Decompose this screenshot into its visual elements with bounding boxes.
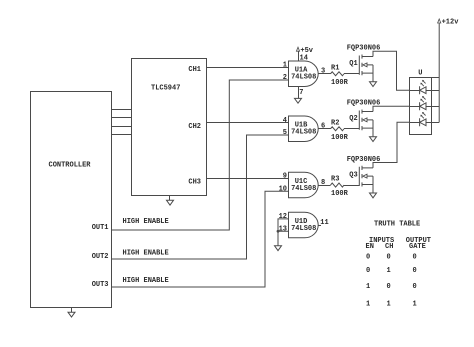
wire OUT1 to U1A pin2 — [112, 80, 289, 230]
ground (TLC5947) — [167, 200, 174, 205]
wire anode stub top — [431, 77, 439, 79]
wire +12v rail — [438, 23, 440, 122]
svg-text:14: 14 — [300, 55, 308, 63]
transistor Q1 — [359, 54, 373, 81]
wire LED2 right — [426, 106, 431, 108]
svg-text:0: 0 — [387, 254, 391, 262]
svg-text:74LS08: 74LS08 — [291, 74, 316, 82]
wire LED2 left — [409, 106, 420, 108]
svg-text:TLC5947: TLC5947 — [151, 85, 180, 93]
svg-text:5: 5 — [283, 129, 287, 137]
svg-text:0: 0 — [413, 283, 417, 291]
svg-text:CONTROLLER: CONTROLLER — [49, 162, 92, 170]
wire CH1 to U1A pin1 — [206, 67, 288, 69]
svg-text:1: 1 — [387, 267, 391, 275]
svg-text:R3: R3 — [331, 176, 339, 184]
svg-text:0: 0 — [413, 267, 417, 275]
svg-text:CH1: CH1 — [188, 66, 201, 74]
svg-text:TRUTH TABLE: TRUTH TABLE — [374, 220, 420, 228]
wire TLC5947 ground — [169, 195, 171, 200]
svg-text:12: 12 — [279, 213, 287, 221]
svg-text:11: 11 — [320, 219, 328, 227]
wire CH3 to U1C pin9 — [206, 178, 288, 180]
svg-text:1: 1 — [366, 301, 370, 309]
svg-text:100R: 100R — [331, 79, 349, 87]
svg-text:+5v: +5v — [300, 47, 313, 55]
wire U1C out to R3 — [318, 185, 330, 187]
wire CH2 to U1B pin4 — [206, 122, 288, 124]
wire bus line 1 — [112, 109, 132, 111]
LED D3 — [420, 118, 426, 126]
wire U1B out to R2 — [318, 128, 330, 130]
wire Q2 drain to LED2 — [373, 106, 409, 111]
ground (U1D inputs) — [275, 246, 282, 251]
wire anode stub LED2 — [431, 106, 439, 108]
svg-text:10: 10 — [279, 186, 287, 194]
svg-text:13: 13 — [279, 226, 287, 234]
wire U1D inputs to ground — [278, 219, 289, 246]
LED D2 — [420, 102, 426, 110]
wire U1A pin14 to +5v — [298, 52, 300, 62]
svg-text:3: 3 — [321, 67, 325, 75]
svg-text:Q3: Q3 — [349, 171, 357, 179]
wire LED3 right — [426, 122, 431, 124]
svg-text:100R: 100R — [331, 190, 349, 198]
svg-text:1: 1 — [366, 283, 370, 291]
ground (controller) — [68, 312, 75, 317]
svg-text:74LS08: 74LS08 — [291, 225, 316, 233]
svg-text:+12v: +12v — [442, 19, 460, 27]
svg-text:74LS08: 74LS08 — [291, 185, 316, 193]
svg-text:4: 4 — [283, 117, 287, 125]
svg-text:CH: CH — [385, 243, 393, 251]
svg-text:CH3: CH3 — [188, 179, 201, 187]
LED module U — [410, 78, 432, 135]
transistor Q2 — [359, 109, 373, 136]
svg-text:1: 1 — [387, 301, 391, 309]
wire OUT2 to U1B pin5 — [112, 135, 289, 259]
AND gate U1A — [289, 61, 319, 87]
svg-text:2: 2 — [283, 74, 287, 82]
transistor Q3 — [359, 166, 373, 193]
svg-text:Q2: Q2 — [349, 115, 357, 123]
svg-text:74LS08: 74LS08 — [291, 129, 316, 137]
wire anode stub LED1 — [431, 90, 439, 92]
LED D1 — [420, 86, 426, 94]
AND gate U1B — [289, 116, 319, 142]
wire controller ground — [71, 307, 73, 312]
svg-text:EN: EN — [366, 243, 374, 251]
svg-text:U: U — [418, 70, 422, 78]
ground (Q1 source) — [370, 82, 377, 87]
wire LED1 left — [409, 90, 420, 92]
resistor R3 — [331, 183, 345, 187]
supply +12v — [438, 19, 441, 23]
wire R3 to Q3 gate — [344, 185, 359, 187]
svg-text:CH2: CH2 — [188, 123, 201, 131]
svg-text:0: 0 — [413, 254, 417, 262]
wire bus line 2 — [112, 117, 132, 119]
wire bus line 4 — [112, 134, 132, 136]
svg-text:1: 1 — [413, 301, 417, 309]
wire U1A out to R1 — [318, 73, 330, 75]
wire R1 to Q1 gate — [344, 73, 359, 75]
wire U1D output stub (pin 11) — [318, 225, 321, 227]
AND gate U1C — [289, 172, 319, 198]
svg-text:7: 7 — [299, 89, 303, 97]
wire anode stub LED3 — [431, 122, 439, 124]
svg-text:Q1: Q1 — [349, 60, 357, 68]
IC TLC5947 — [132, 59, 207, 196]
svg-text:OUT1: OUT1 — [92, 224, 109, 232]
svg-text:0: 0 — [387, 283, 391, 291]
wire Q1 drain to LED1 — [373, 51, 409, 90]
svg-text:GATE: GATE — [409, 243, 426, 251]
AND gate U1D — [289, 212, 319, 238]
svg-text:100R: 100R — [331, 134, 349, 142]
ground (Q3 source) — [370, 193, 377, 198]
svg-text:9: 9 — [283, 173, 287, 181]
svg-text:OUT3: OUT3 — [92, 281, 109, 289]
svg-text:0: 0 — [366, 267, 370, 275]
wire Q1 source — [373, 80, 375, 82]
junction dot U1D inputs — [277, 230, 280, 233]
svg-text:6: 6 — [321, 123, 325, 131]
wire bus line 3 — [112, 126, 132, 128]
wire LED1 right — [426, 90, 431, 92]
ground (Q2 source) — [370, 137, 377, 142]
svg-text:HIGH ENABLE: HIGH ENABLE — [123, 218, 169, 226]
svg-text:1: 1 — [283, 62, 287, 70]
resistor R2 — [331, 127, 345, 131]
ground (U1A pin7) — [295, 98, 302, 103]
wire U1A pin7 to ground — [298, 87, 300, 99]
svg-text:HIGH ENABLE: HIGH ENABLE — [123, 250, 169, 258]
resistor R1 — [331, 72, 345, 76]
svg-text:R2: R2 — [331, 119, 339, 127]
controller block — [31, 92, 112, 308]
svg-text:HIGH ENABLE: HIGH ENABLE — [123, 277, 169, 285]
wire R2 to Q2 gate — [344, 128, 359, 130]
supply +5v — [296, 47, 299, 51]
wire Q3 drain to LED3 — [373, 122, 409, 168]
svg-text:R1: R1 — [331, 64, 339, 72]
wire LED3 left — [409, 122, 420, 124]
svg-text:OUT2: OUT2 — [92, 253, 109, 261]
svg-text:0: 0 — [366, 254, 370, 262]
wire OUT3 to U1C pin10 — [112, 191, 289, 287]
